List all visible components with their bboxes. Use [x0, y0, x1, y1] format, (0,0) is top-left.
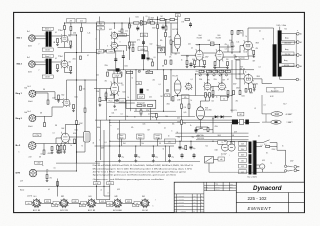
capacitor Cez — [195, 128, 198, 134]
pot value 2 — [142, 143, 145, 145]
label box top1 — [67, 18, 75, 22]
resistor R14 — [128, 24, 130, 28]
vertical x163.5 — [163, 70, 165, 111]
title block outer — [174, 182, 304, 212]
choke Dr1 — [164, 139, 175, 144]
level box Bu5 — [33, 134, 41, 137]
input jack Bu3 — [29, 90, 36, 97]
capacitor C16b — [181, 153, 184, 159]
OT bottom lead — [280, 77, 296, 80]
small label 71 — [172, 124, 175, 126]
small label 91 — [53, 133, 55, 135]
number row line — [236, 202, 304, 204]
wire splitter plate a — [207, 74, 209, 83]
resistor Rp1 — [181, 104, 183, 108]
resistor R10 cathode — [74, 139, 76, 143]
small label 114 — [206, 146, 209, 148]
wire v11 left — [94, 89, 111, 98]
dual can capacitor C18 — [221, 144, 235, 151]
mid extra verticals — [116, 51, 120, 146]
HT rail A — [65, 22, 178, 24]
label Bu3 — [28, 86, 31, 88]
vertical x96.5 — [96, 23, 98, 186]
vertical x240 — [239, 74, 241, 91]
can block right of V2b — [84, 132, 91, 143]
label box 303 — [148, 20, 153, 24]
value label 31 — [46, 170, 49, 172]
pot row phono — [107, 98, 126, 102]
pilot lamp La1 — [260, 164, 265, 169]
small label 1 — [69, 36, 72, 38]
ground g3 — [56, 43, 59, 46]
small label 83 — [45, 34, 47, 36]
ground g5 — [72, 109, 75, 112]
tube V2a — [62, 98, 71, 107]
wire tone drop 1 — [141, 108, 151, 120]
small label 110 — [168, 136, 170, 138]
pot rail — [195, 73, 240, 75]
resistor R44 — [185, 146, 187, 150]
wire rb chain — [56, 144, 76, 146]
label box feedback — [182, 95, 190, 99]
ground g6 — [57, 99, 60, 102]
pinout label 4 — [113, 210, 123, 212]
vertical x123 — [122, 51, 124, 70]
pin link label box 4 — [126, 200, 132, 203]
resistor R40 — [107, 72, 109, 76]
ground g9 — [46, 179, 49, 182]
ground g21 — [252, 55, 255, 58]
value label 47 — [101, 148, 105, 150]
resistor R22 rail — [150, 22, 154, 24]
small label 121 — [282, 146, 284, 148]
capacitor C6 — [162, 25, 165, 31]
pin link label box low 4 — [133, 204, 139, 207]
small label 79 — [99, 140, 100, 142]
small label 24 — [225, 49, 227, 51]
psu switch wire — [196, 127, 213, 133]
input jack Bu1 — [29, 35, 36, 42]
vertical x157.6 — [158, 17, 171, 70]
value label 12 — [244, 52, 248, 54]
wire V1a cathode — [58, 43, 71, 48]
pot row risers — [202, 70, 228, 72]
tube V12 ECLL800 — [196, 104, 204, 122]
tube V1a — [60, 34, 69, 43]
small label 48 — [191, 100, 193, 102]
capacitor C1 — [80, 56, 82, 60]
small label 21 — [181, 60, 183, 62]
small label 77 — [172, 131, 173, 133]
label 220V — [272, 149, 277, 151]
small label 61 — [149, 97, 152, 99]
power transformer Tr6 right bar — [253, 141, 256, 175]
small label 89 — [43, 89, 46, 91]
small label 124 — [290, 161, 293, 163]
small label 0 — [58, 30, 60, 32]
small label 16 — [150, 44, 153, 46]
label box top2 — [77, 18, 86, 22]
output terminal Kl1 — [296, 32, 302, 35]
small label 108 — [250, 93, 253, 95]
resistor R31 — [227, 62, 229, 66]
tube V3b — [110, 41, 118, 49]
small label 132 — [116, 196, 117, 198]
phono net — [35, 93, 49, 104]
small label 98 — [263, 39, 265, 41]
small label 60 — [147, 90, 150, 92]
heater drops — [97, 186, 110, 199]
label V1a — [60, 30, 63, 32]
label EL34 b — [241, 67, 245, 71]
pot wiper 3 — [157, 139, 159, 146]
pin left label box 3 — [81, 202, 87, 205]
resistor Rx2 — [152, 62, 154, 66]
value label 21 — [87, 55, 89, 57]
small label 46 — [184, 112, 187, 114]
label S2 — [157, 45, 162, 47]
resistor R43 — [172, 97, 174, 101]
wire pinout link 1 — [40, 202, 60, 204]
resistor R17 — [157, 25, 159, 29]
resistor R28 — [194, 61, 196, 65]
wire v3c leads — [144, 48, 164, 56]
label Bu2 — [27, 57, 30, 59]
heater label box 2 — [107, 182, 114, 185]
tube socket pinout ECC 83 #1 — [32, 198, 42, 208]
level box Bu6 — [35, 161, 43, 164]
psu text 220v — [197, 135, 204, 140]
small label 50 — [96, 53, 101, 55]
speaker 40W text — [286, 113, 293, 116]
small label 15 — [137, 40, 140, 42]
transformer label box Tr2 top — [42, 54, 53, 57]
input label MIC 1 — [17, 38, 23, 40]
label box mid2 — [165, 94, 170, 97]
small label 23 — [205, 57, 208, 59]
tube socket pinout ECLL800 #4 — [113, 198, 123, 208]
small label 36 — [216, 71, 219, 73]
small label 117 — [222, 155, 223, 157]
value label 25 — [73, 58, 76, 60]
value label 23 — [55, 32, 57, 34]
value label 4 — [197, 44, 199, 46]
value label 36 — [177, 118, 180, 120]
pin link label box low 2 — [79, 204, 85, 207]
resistor R3 cathode — [70, 41, 72, 45]
tube V7b phase splitter — [217, 82, 226, 91]
balance pot row — [199, 70, 230, 76]
output transformer Tr5 right bar — [278, 30, 282, 76]
small label 33 — [196, 71, 199, 73]
resistor Rtone2 — [156, 114, 158, 118]
fuse Si1 — [264, 144, 270, 147]
small label 41 — [227, 79, 229, 81]
resistor Rb1 — [57, 145, 59, 150]
value label 39 — [215, 126, 218, 128]
output stub A1 — [282, 33, 297, 35]
small label 49 — [212, 101, 215, 103]
pot row mic1 label — [97, 49, 104, 53]
vertical x195.5 — [195, 74, 197, 96]
wire rx2 — [148, 59, 153, 62]
value label 41 — [218, 135, 221, 137]
label box 220k — [140, 33, 148, 37]
small label 29 — [256, 48, 259, 50]
ground g24 — [105, 97, 108, 100]
tube socket pinout EL 34 #5 — [140, 198, 150, 208]
value label 49 — [28, 72, 32, 74]
small label 116 — [232, 134, 234, 137]
grid stopper row — [105, 91, 114, 97]
capacitor C4 dark — [141, 54, 145, 59]
label can cap — [221, 154, 227, 156]
wire v2b out — [69, 136, 83, 138]
small label 126 — [108, 193, 109, 195]
pin link label box 3 — [100, 200, 106, 203]
speaker 1W text — [287, 121, 293, 124]
resistor R35 — [227, 91, 229, 95]
capacitor C9 dark — [140, 89, 144, 94]
tube V4 ECC83 tall — [174, 32, 181, 52]
vertical x143.5 — [143, 17, 145, 70]
pin left label box 2 — [53, 202, 59, 205]
vertical x232 — [231, 30, 233, 53]
input jack Bu4 — [29, 115, 36, 122]
small label 3 — [69, 61, 72, 63]
title divider — [235, 182, 237, 212]
value label 1 — [202, 67, 204, 69]
rail y95.5 — [174, 95, 232, 97]
value label 30 — [41, 154, 43, 156]
value label 42 — [177, 132, 179, 134]
cap mid — [114, 57, 117, 63]
wire lamp feeds — [257, 165, 286, 172]
power transformer Tr6 left bar seg3 — [249, 165, 252, 175]
value label 18 — [154, 57, 156, 59]
label Bu4 — [28, 111, 31, 113]
label grid refs — [188, 44, 214, 46]
label rp — [184, 107, 187, 125]
output label box 6ohm — [279, 63, 294, 67]
wire V11 down — [113, 91, 115, 100]
resistor R20 rail — [134, 22, 140, 24]
resistor R7 cathode — [73, 105, 75, 109]
small label 93 — [54, 168, 56, 170]
value label 20 — [105, 65, 108, 67]
top left box x177 — [175, 14, 180, 17]
value label 0 — [192, 59, 195, 61]
ot secondary com — [295, 34, 297, 66]
small label 103 — [285, 48, 288, 51]
small label 55 — [96, 91, 99, 93]
label R11 — [83, 89, 86, 91]
drop from top1 — [70, 23, 72, 35]
small label 44 — [236, 101, 239, 103]
rectifier block Gl1 — [232, 112, 249, 124]
vertical x171 — [170, 70, 172, 101]
resistor R8 grid — [51, 147, 53, 151]
resistor R41 — [120, 72, 122, 76]
tube V5 — [195, 49, 205, 62]
small label 125 — [101, 190, 103, 192]
wire tone drop 2 — [151, 114, 157, 121]
input jack Bu5 — [28, 142, 36, 150]
small label 31 — [245, 72, 247, 74]
label V2a — [62, 95, 65, 97]
wire v11 pot — [114, 101, 135, 104]
small label 47 — [177, 122, 180, 124]
label C8 — [208, 40, 211, 42]
small label 134 — [155, 200, 156, 202]
small label 123 — [271, 163, 273, 165]
diode D1 — [215, 115, 218, 118]
value label 38 — [200, 128, 203, 130]
meter wires — [209, 160, 257, 173]
mains plug — [294, 165, 299, 171]
input transformer Tr1 — [46, 31, 52, 47]
value label 28 — [75, 130, 78, 132]
small label 63 — [167, 104, 170, 106]
mains terminal 2 — [284, 170, 286, 172]
PT winding box 6.3V a — [239, 142, 247, 146]
resistor R45 — [57, 182, 59, 186]
pot label box treble — [137, 134, 145, 140]
small label 85 — [45, 60, 47, 62]
wire pot row mic1 — [104, 50, 122, 52]
ground g4 — [56, 69, 59, 72]
label 350V — [151, 17, 155, 19]
small label 45 — [177, 100, 181, 102]
output label box 25ohm — [281, 52, 294, 56]
value label 26 — [55, 58, 57, 60]
tube V6 — [215, 49, 225, 62]
rail mid2 y122.4 — [110, 121, 260, 123]
resistor Rph — [99, 97, 101, 101]
tube V1b — [60, 60, 69, 69]
rail y111.2 — [134, 110, 176, 112]
label V12 — [205, 107, 211, 111]
small label 87 — [25, 88, 28, 90]
label Ro3 — [119, 31, 122, 33]
small label 43 — [242, 96, 245, 98]
small label 4 — [96, 39, 97, 41]
rail y69.8 — [107, 69, 254, 71]
value label 14 — [207, 80, 210, 82]
tube V10 EL34 — [243, 73, 254, 84]
ground g15 — [212, 95, 215, 98]
speaker jack 40W — [271, 112, 283, 116]
jack5 parts — [39, 144, 45, 159]
transformer label box Tr1 bottom — [42, 48, 53, 51]
small label 22 — [191, 48, 193, 50]
value label 22 — [73, 33, 76, 35]
label V8 — [173, 75, 179, 77]
resistor R37 — [239, 91, 241, 95]
small label 69 — [152, 117, 154, 119]
capacitor C7 — [189, 22, 192, 28]
small label 133 — [144, 196, 145, 198]
label box st2b — [97, 26, 104, 30]
tube V2b — [60, 132, 70, 144]
output stub A4 — [282, 65, 297, 67]
wire V6 plate — [214, 45, 234, 51]
label box st2a — [97, 22, 104, 26]
pinout top label 1 — [34, 196, 37, 198]
small label 58 — [153, 80, 156, 82]
vertical x104 — [103, 130, 105, 186]
vertical x76.3 — [75, 125, 77, 164]
value label 45 — [258, 136, 260, 138]
dynacord row line — [236, 192, 304, 194]
PT winding box 50V — [239, 158, 247, 162]
tall tube V8 left — [174, 78, 181, 98]
label R13 — [79, 123, 83, 125]
revision rows text — [178, 195, 203, 208]
value label 34 — [148, 114, 150, 116]
ground gb2 — [60, 150, 63, 153]
small label 68 — [143, 124, 146, 126]
note line 4 — [93, 174, 176, 177]
value label 44 — [234, 132, 237, 134]
wire transformer2 to tube V1b — [51, 61, 61, 63]
small label 34 — [203, 71, 206, 73]
small label 38 — [191, 79, 193, 81]
capacitor C15 electrolytic — [168, 146, 174, 159]
ground g17 — [118, 159, 121, 162]
label box ECC808 — [118, 33, 127, 37]
small label 53 — [122, 85, 124, 87]
resistor R2 plate — [64, 26, 66, 30]
drop from top2 — [80, 23, 82, 53]
small label 101 — [297, 30, 298, 32]
value label 17 — [162, 66, 165, 68]
small label 86 — [39, 70, 40, 72]
label a40 — [27, 195, 32, 197]
small label 62 — [161, 96, 164, 98]
small label 19 — [182, 22, 185, 24]
rail mid1 y120.1 — [95, 119, 232, 121]
wire ez81 top — [199, 101, 201, 104]
small label 100 — [285, 29, 288, 31]
power transformer Tr6 left bar seg1 — [249, 142, 252, 154]
small label 18 — [169, 37, 172, 39]
small label 35 — [210, 71, 213, 73]
wire psu rail y141.2 — [110, 140, 249, 142]
capacitor C12 electrolytic — [118, 146, 124, 159]
small label 20 — [175, 54, 178, 56]
wire pinout link 2 — [68, 202, 88, 204]
small label 113 — [192, 137, 195, 139]
small label 92 — [73, 133, 77, 135]
small label 118 — [229, 155, 230, 157]
small label 104 — [284, 59, 287, 62]
value label 50 — [28, 101, 33, 103]
rail y146 — [95, 145, 175, 147]
wire V11 top — [117, 72, 119, 83]
PT winding box 6.3V b — [239, 164, 247, 168]
small label 120 — [266, 153, 268, 155]
value label 32 — [112, 113, 115, 115]
left vertical bus 1 — [76, 35, 78, 171]
small label 72 — [111, 125, 112, 127]
ground g22 — [253, 88, 256, 91]
pin link label box low 1 — [52, 204, 58, 207]
note line 1 — [93, 165, 194, 167]
small label 115 — [215, 149, 218, 152]
capacitor C17b — [193, 153, 196, 159]
wire V1b cathode — [65, 69, 71, 73]
